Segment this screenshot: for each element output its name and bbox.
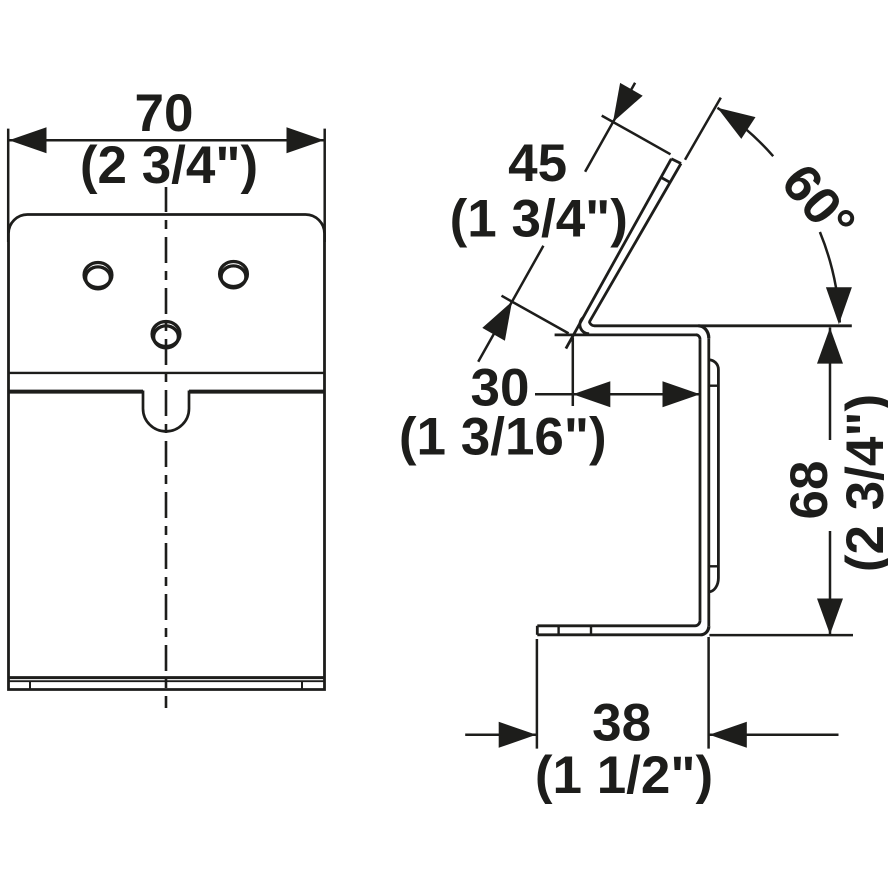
30-dim right arrow <box>663 381 701 407</box>
60deg arc upper segment <box>717 108 773 156</box>
top outer corner <box>698 326 708 338</box>
30-dim line <box>535 393 700 396</box>
68-dim top arrow <box>817 328 843 364</box>
U-notch <box>143 391 189 432</box>
bottom inner fillet <box>695 621 700 626</box>
38-dim left tail <box>465 734 537 737</box>
70-dim dimension line <box>8 139 325 142</box>
clip strip bottom tick <box>709 565 719 567</box>
bend inner small arc <box>589 321 594 326</box>
70-dim left arrow <box>9 127 47 153</box>
clip strip bottom arc <box>709 578 719 592</box>
45-dim bottom arrow <box>482 302 512 341</box>
60deg arc lower segment <box>820 232 840 323</box>
bottom flange bottom surface <box>537 633 700 636</box>
70-dim right arrow <box>287 127 325 153</box>
hole middle outer <box>152 322 180 347</box>
bottom right tick <box>301 681 303 689</box>
45-dim top extension tick <box>602 116 671 155</box>
38-dim right arrow <box>709 722 747 748</box>
front view bend edge thick line left part <box>9 390 144 394</box>
clip strip top arc <box>709 360 719 370</box>
svg-text:38: 38 <box>592 694 651 753</box>
flange tip cap <box>671 159 681 164</box>
68-dim bottom arrow <box>817 599 843 635</box>
bend crescent <box>580 318 589 334</box>
68-dim line upper part <box>829 328 832 441</box>
38-dim left arrow <box>499 722 537 748</box>
svg-text:(1 1/2"): (1 1/2") <box>535 746 713 805</box>
hole left inner <box>86 267 111 289</box>
38-dim right tail <box>709 734 839 737</box>
hole middle inner <box>154 326 179 348</box>
clip strip outer line <box>717 370 720 579</box>
60deg top arrow <box>717 108 755 139</box>
web inner face <box>699 339 702 620</box>
68-dim bottom extension line <box>709 634 853 637</box>
top inner fillet <box>696 335 700 339</box>
clip strip top tick <box>709 385 719 387</box>
svg-text:70: 70 <box>135 84 194 143</box>
hole left outer <box>84 263 112 288</box>
45-dim top arrow <box>613 83 643 122</box>
front view bend edge thick line right part <box>189 390 325 394</box>
svg-text:(2 3/4"): (2 3/4") <box>836 394 888 572</box>
bottom flange tick 2 <box>590 626 592 635</box>
45-dim bottom extension tick <box>502 296 569 334</box>
front view bend tangent line <box>9 372 325 374</box>
45-dim line upper segment <box>585 83 635 172</box>
web outer face <box>707 338 710 626</box>
front view bottom inner line <box>9 680 325 682</box>
front view plate outline <box>9 215 325 690</box>
front view bottom face line <box>9 676 325 679</box>
30-dim left arrow <box>573 381 611 407</box>
side view: 60deg flange outer line <box>566 159 671 349</box>
38-dim left extension line <box>536 639 539 749</box>
bottom flange tick 1 <box>557 626 559 635</box>
70-dim left extension line <box>7 129 10 242</box>
30-dim extension line <box>572 338 575 407</box>
68-dim line lower part <box>829 531 832 634</box>
top flange bottom surface (with left extension) <box>555 333 696 336</box>
45-dim line lower segment <box>478 246 543 362</box>
38-dim right extension line <box>707 637 710 749</box>
bottom outer corner <box>701 626 709 635</box>
svg-text:(1 3/4"): (1 3/4") <box>450 189 628 248</box>
svg-text:(2 3/4"): (2 3/4") <box>80 136 258 195</box>
bottom left tick <box>29 681 31 689</box>
60deg arm extension line <box>685 98 721 160</box>
vertical centerline <box>165 187 168 708</box>
bottom flange top surface <box>537 624 695 627</box>
svg-text:(1 3/16"): (1 3/16") <box>399 408 607 467</box>
hole right inner <box>221 266 246 288</box>
bottom flange end cap <box>536 626 539 635</box>
70-dim right extension line <box>323 129 326 242</box>
top flange top surface + extension line to right <box>595 324 852 327</box>
side view: 60deg flange inner line <box>590 164 681 322</box>
svg-text:68: 68 <box>780 461 839 520</box>
svg-text:45: 45 <box>508 134 567 193</box>
flange tip tick <box>661 177 670 182</box>
60deg bottom arrow <box>826 287 852 324</box>
hole right outer <box>220 262 248 287</box>
